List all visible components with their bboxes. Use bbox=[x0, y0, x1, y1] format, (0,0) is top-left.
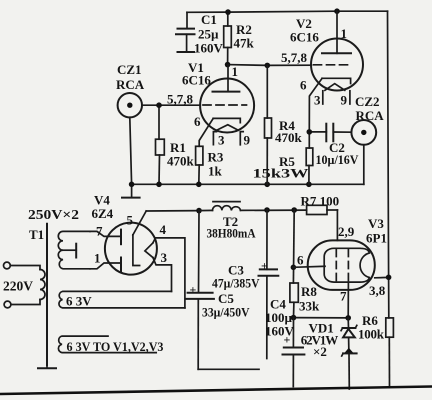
node: R2 bottom / V1 plate bbox=[225, 62, 231, 68]
svg-text:RCA: RCA bbox=[116, 77, 145, 92]
svg-text:220V: 220V bbox=[3, 279, 33, 294]
wire: V1 plate to V2 grid bbox=[228, 64, 312, 67]
svg-text:R3: R3 bbox=[208, 150, 224, 165]
svg-text:3: 3 bbox=[218, 133, 225, 148]
svg-text:1: 1 bbox=[94, 251, 101, 266]
bottom frame line bbox=[0, 387, 432, 395]
node: rail/R5 bbox=[306, 182, 312, 188]
capacitor C5 bbox=[186, 211, 259, 370]
capacitor C1 bbox=[176, 12, 224, 56]
V4 pin4 lead bbox=[153, 238, 185, 308]
svg-text:38H80mA: 38H80mA bbox=[207, 226, 257, 241]
resistor R8 bbox=[290, 283, 320, 318]
connector CZ1 RCA bbox=[116, 62, 200, 184]
svg-text:2,9: 2,9 bbox=[338, 224, 355, 239]
svg-text:×2: ×2 bbox=[313, 344, 327, 359]
node: top rail / R2 bbox=[225, 9, 231, 15]
svg-text:33k: 33k bbox=[299, 299, 320, 314]
svg-text:V3: V3 bbox=[368, 216, 384, 231]
node: pin6 junction bbox=[291, 265, 297, 271]
svg-text:9: 9 bbox=[244, 133, 251, 148]
T1 core ground bbox=[46, 365, 48, 368]
T1 HV secondary winding bbox=[58, 231, 90, 268]
V1 pin 3 stub bbox=[213, 132, 216, 145]
node: rail/R1 bbox=[156, 182, 162, 188]
wire: top B+ rail bbox=[187, 11, 388, 12]
wire: B+ line from V4 bbox=[146, 210, 199, 212]
svg-text:3: 3 bbox=[161, 250, 168, 265]
V2 grid (dashed) bbox=[314, 64, 353, 66]
V2 pin 3 stub bbox=[322, 91, 324, 104]
V2 cathode bbox=[322, 78, 351, 83]
V2 pin 9 stub bbox=[349, 91, 351, 104]
svg-text:250V×2: 250V×2 bbox=[28, 207, 79, 222]
svg-text:100k: 100k bbox=[358, 327, 385, 342]
svg-text:C1: C1 bbox=[201, 12, 217, 27]
node: rail/CZ1 bbox=[129, 182, 135, 188]
choke T2 bbox=[199, 202, 307, 241]
node: B+/C3 bbox=[264, 207, 270, 213]
svg-text:47µ/385V: 47µ/385V bbox=[212, 276, 260, 291]
svg-text:470k: 470k bbox=[167, 154, 195, 169]
node: VD1 top bbox=[345, 315, 351, 321]
svg-text:6Z4: 6Z4 bbox=[92, 206, 114, 221]
T1 primary 220V bbox=[4, 262, 11, 269]
svg-text:6: 6 bbox=[297, 253, 304, 268]
svg-text:6C16: 6C16 bbox=[182, 73, 211, 88]
V2 heater bbox=[325, 84, 345, 91]
capacitor C4 bbox=[265, 297, 304, 387]
V1 pin 9 stub bbox=[240, 132, 243, 145]
svg-text:6P1: 6P1 bbox=[366, 231, 387, 246]
resistor R7 bbox=[301, 194, 340, 215]
svg-text:5: 5 bbox=[127, 213, 134, 228]
V1 cathode bbox=[213, 118, 240, 122]
transformer T1 bbox=[3, 207, 185, 368]
svg-text:15k3W: 15k3W bbox=[253, 166, 309, 181]
svg-text:47k: 47k bbox=[234, 36, 255, 51]
V3 pin 3,8 wire bbox=[375, 276, 389, 278]
svg-text:3,8: 3,8 bbox=[369, 283, 386, 298]
V1 plate bbox=[227, 65, 229, 92]
V3 grid 1 (dashed) bbox=[335, 250, 337, 282]
svg-text:3: 3 bbox=[314, 93, 321, 108]
svg-text:T1: T1 bbox=[29, 227, 44, 242]
V2 plate bbox=[336, 11, 338, 53]
svg-text:33µ/450V: 33µ/450V bbox=[202, 305, 250, 320]
V4 heater bbox=[145, 243, 153, 258]
tube V2 6C16 bbox=[281, 11, 363, 107]
tube V1 6C16 bbox=[167, 60, 254, 148]
node: top rail / V2 plate bbox=[334, 8, 340, 14]
wire: V3 pin6 bbox=[293, 266, 325, 267]
resistor R3 bbox=[196, 146, 224, 184]
svg-text:1: 1 bbox=[232, 64, 239, 79]
svg-text:160V: 160V bbox=[265, 324, 295, 339]
resistor R6 bbox=[358, 313, 393, 342]
node: V3 pins 3,8 to rail bbox=[386, 275, 392, 281]
node: B+/R8 bbox=[291, 207, 297, 213]
zener diodes VD1 bbox=[301, 318, 357, 389]
wire: V1 pin6 to R3 bbox=[199, 118, 213, 146]
wire: right vertical rail bbox=[388, 11, 389, 318]
V4 cathode bbox=[133, 235, 140, 266]
svg-text:7: 7 bbox=[96, 224, 103, 239]
V1 heater bbox=[217, 125, 239, 131]
resistor R5 bbox=[253, 132, 313, 184]
svg-text:1k: 1k bbox=[208, 164, 223, 179]
V3 envelope bbox=[308, 240, 375, 290]
svg-text:1: 1 bbox=[341, 26, 348, 41]
svg-text:5,7,8: 5,7,8 bbox=[167, 92, 194, 107]
T1 HV center tap bbox=[63, 249, 76, 251]
svg-text:160V: 160V bbox=[194, 41, 224, 56]
node: R8/C4 bbox=[291, 315, 297, 321]
tube V4 6Z4 bbox=[90, 193, 185, 308]
T1 core bbox=[46, 224, 48, 365]
wire: ground rail bbox=[132, 183, 364, 185]
resistor R1 bbox=[156, 105, 195, 184]
node: CZ1/R1 bbox=[156, 102, 162, 108]
node: rail/R3 bbox=[196, 182, 202, 188]
node: C2/R5/V2 pin6 bbox=[307, 129, 313, 135]
wire: R8 bottom to VD1 bbox=[294, 317, 349, 319]
svg-text:6 3V: 6 3V bbox=[66, 294, 92, 309]
node: B+/C5 bbox=[196, 208, 202, 214]
node: R4 top / V2 grid bbox=[265, 63, 271, 69]
svg-text:+: + bbox=[190, 283, 197, 297]
resistor R4 bbox=[265, 65, 303, 184]
T1 6.3V winding (V4 heater) bbox=[59, 291, 185, 308]
svg-text:6: 6 bbox=[300, 78, 307, 93]
wire: V2 pin6 down to C2 node bbox=[309, 78, 322, 132]
V3 plate structure bbox=[324, 248, 369, 282]
svg-text:6 3V TO V1,V2,V3: 6 3V TO V1,V2,V3 bbox=[67, 339, 164, 354]
svg-text:CZ1: CZ1 bbox=[117, 62, 142, 77]
tube V3 6P1 bbox=[297, 210, 389, 318]
connector CZ2 RCA bbox=[351, 94, 384, 184]
V4 pin7 lead and plate bbox=[90, 231, 121, 236]
svg-text:R7 100: R7 100 bbox=[301, 194, 340, 209]
svg-text:CZ2: CZ2 bbox=[355, 94, 380, 109]
svg-text:9: 9 bbox=[341, 93, 348, 108]
node: rail/R4 bbox=[264, 182, 270, 188]
V4 pin5 lead bbox=[133, 211, 146, 235]
V4 pin3 lead bbox=[153, 258, 172, 292]
svg-text:6C16: 6C16 bbox=[290, 30, 319, 45]
wire: right vertical below R6 bbox=[388, 337, 390, 387]
V3 grid 2 (dashed) bbox=[347, 250, 349, 282]
svg-text:470k: 470k bbox=[275, 130, 303, 145]
V4 pin1 lead and plate bbox=[90, 263, 121, 269]
svg-text:7: 7 bbox=[340, 289, 347, 304]
svg-text:6: 6 bbox=[194, 114, 201, 129]
svg-text:10µ/16V: 10µ/16V bbox=[316, 152, 360, 167]
svg-text:5,7,8: 5,7,8 bbox=[281, 50, 308, 65]
T1 6.3V winding (V1,V2,V3 heaters) bbox=[58, 336, 156, 353]
capacitor C3 bbox=[212, 210, 278, 359]
svg-text:R8: R8 bbox=[301, 284, 317, 299]
V1 grid (dashed) bbox=[203, 104, 247, 106]
capacitor C2 bbox=[309, 124, 359, 167]
resistor R2 bbox=[224, 12, 255, 64]
svg-text:25µ: 25µ bbox=[198, 27, 219, 42]
svg-text:4: 4 bbox=[160, 222, 167, 237]
V3 pin 2,9 wire bbox=[336, 210, 338, 240]
ground below CZ1 bbox=[122, 184, 140, 197]
V3 pin 7 wire bbox=[347, 282, 349, 318]
wire: R8 / V3 pin6 column bbox=[292, 210, 295, 283]
